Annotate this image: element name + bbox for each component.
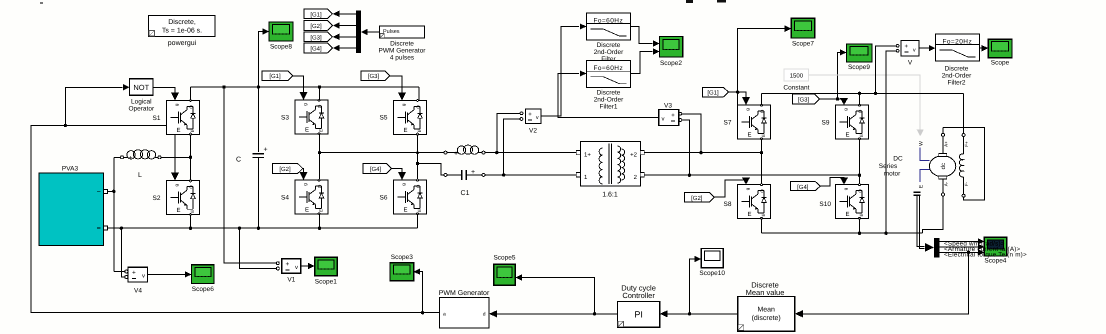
wire: V1 minus tap from negative rail: [239, 228, 276, 268]
bus selector bar: [934, 238, 939, 258]
svg-text:Pulses: Pulses: [383, 29, 400, 35]
from tag [G3] feeding S5: [361, 71, 390, 81]
wire: S3 collector to rail: [319, 87, 321, 100]
from tag [G2] feeding S8: [684, 192, 714, 202]
Discrete PWM Generator 4 pulses block: [380, 26, 425, 38]
svg-text:Discrete: Discrete: [597, 42, 621, 49]
svg-text:dc: dc: [940, 163, 947, 169]
svg-text:S3: S3: [281, 115, 289, 122]
wire: V4 plus from PVA3+ riser: [114, 271, 125, 273]
Discrete 2nd-Order Filter2 (Fo=20Hz): [935, 34, 979, 61]
voltage measurement V4: [125, 267, 148, 282]
voltage measurement V1: [276, 259, 301, 274]
svg-text:Ts = 1e-06 s.: Ts = 1e-06 s.: [162, 28, 202, 35]
wire: V minus tap from - rail: [886, 51, 896, 233]
wire: Scope8 input from DC bus riser: [258, 32, 263, 88]
svg-text:+: +: [132, 270, 136, 277]
svg-text:+: +: [528, 112, 532, 118]
wire: PWM 4 pulses to demux: [368, 31, 380, 33]
goto tag [G3]: [304, 32, 333, 42]
node: Scope5 tap on PI output: [593, 312, 596, 315]
wire: V1 to Scope1: [301, 265, 308, 267]
svg-text:[G1]: [G1]: [310, 11, 322, 18]
PI Duty cycle Controller block: [618, 301, 660, 327]
wire: riser to Scope9: [838, 52, 841, 99]
svg-text:[G4]: [G4]: [310, 46, 322, 53]
goto tag [G2]: [304, 21, 333, 31]
wire: [G4] to S10 gate: [820, 178, 844, 187]
svg-text:S9: S9: [822, 120, 830, 127]
transformer 1.6:1: [576, 142, 644, 187]
wire: Filter1 output to Scope2 input2: [630, 52, 652, 74]
wire: bus selector out2 to Scope4: [939, 246, 978, 248]
wire: V2 minus riser: [504, 119, 520, 175]
wire: demux out4 to [G4]: [339, 47, 356, 49]
svg-text:v: v: [913, 47, 916, 53]
wire: demux out2 to [G2]: [339, 25, 356, 27]
node: NOT branch tap: [64, 124, 67, 127]
faded Constant 1500 block: [784, 69, 809, 81]
voltage measurement V: [896, 40, 919, 56]
svg-text:Controller: Controller: [622, 291, 655, 300]
wire: S4 emitter to negative rail: [319, 214, 321, 228]
svg-text:powergui: powergui: [168, 39, 197, 47]
wire: C1 to transformer 1: [485, 174, 576, 176]
svg-text:[G1]: [G1]: [269, 73, 281, 80]
svg-text:v: v: [536, 115, 539, 121]
wire: S1 collector up to DC bus: [190, 87, 192, 100]
wire: [G2] to S4 gate: [302, 169, 305, 174]
wire: S5 collector from rail: [418, 87, 420, 100]
svg-text:[G3]: [G3]: [798, 97, 810, 104]
PVA3 solar array block: [39, 173, 104, 246]
wire: A- return to bridge2 - rail: [923, 196, 943, 233]
transistor S7: [738, 104, 771, 140]
wire: branch up to NOT input: [65, 87, 122, 125]
wire: S7 collector to bridge2 + rail: [761, 93, 763, 105]
svg-text:[G3]: [G3]: [310, 34, 322, 41]
svg-text:S2: S2: [153, 195, 161, 202]
svg-text:W: W: [919, 141, 925, 146]
node: bridge2 leg A: [760, 151, 763, 154]
transistor S4: [295, 179, 328, 215]
svg-text:d: d: [483, 312, 486, 318]
wire: Scope10 tap: [688, 312, 691, 315]
svg-text:Discrete,: Discrete,: [168, 18, 196, 26]
from tag [G4] feeding S10: [790, 182, 820, 191]
goto tag [G1]: [304, 9, 333, 19]
Scope6: [192, 265, 215, 284]
negative bus rail of PV and H-bridge1: [121, 227, 417, 229]
svg-text:A-: A-: [944, 181, 949, 186]
wire: riser corner to inductor L left port: [114, 156, 120, 158]
svg-text:Scope1: Scope1: [315, 279, 337, 286]
voltage measurement V2: [520, 109, 541, 124]
wire: demux out1 to [G1]: [339, 13, 356, 15]
node: bridge1 leg A output: [318, 151, 321, 154]
Scope2: [659, 37, 682, 57]
wire: inductor to transformer 1+: [485, 152, 576, 154]
svg-text:Fo=20Hz: Fo=20Hz: [942, 39, 972, 46]
svg-text:Scope3: Scope3: [391, 254, 413, 261]
wire: L to boost switch node: [161, 156, 191, 158]
wire: V output to Filter2: [919, 47, 929, 49]
wire: S5 emitter to S6 collector: [417, 134, 419, 180]
wire: leg B output jog down to C1: [418, 164, 445, 175]
inductor L: [121, 150, 162, 162]
wire: V3 minus to 2 line: [682, 120, 690, 175]
svg-text:L: L: [138, 172, 142, 179]
Discrete 2nd-Order Filter (Fo=60Hz): [586, 13, 630, 40]
wire: bus selector out1 to Scope4: [939, 240, 978, 242]
wire: bus selector out3 to Scope4: [939, 251, 978, 253]
svg-text:Scope5: Scope5: [493, 255, 515, 262]
capacitor C: [253, 87, 268, 228]
wire: [G3] to S9 gate and Scope9 tap: [820, 98, 845, 101]
svg-text:[G2]: [G2]: [310, 23, 322, 30]
from tag [G3] feeding S9: [793, 94, 820, 104]
svg-text:v: v: [662, 117, 665, 123]
svg-text:[G2]: [G2]: [279, 166, 291, 173]
wire: S3 emitter to S4 collector: [319, 134, 321, 180]
svg-text:+: +: [263, 147, 267, 154]
wire: V2 output up to Filter: [541, 27, 579, 117]
svg-text:Scope2: Scope2: [660, 60, 682, 67]
svg-text:+: +: [671, 113, 675, 119]
svg-text:Fo=60Hz: Fo=60Hz: [593, 65, 623, 72]
svg-text:2nd-Order: 2nd-Order: [942, 73, 972, 80]
svg-text:+: +: [905, 44, 909, 50]
svg-text:Scope10: Scope10: [699, 270, 725, 277]
wire: DC link + down to V1: [224, 87, 276, 263]
wire: V4 minus tap: [121, 228, 125, 277]
svg-text:S7: S7: [724, 120, 732, 127]
transistor S9: [836, 104, 869, 140]
svg-text:4 pulses: 4 pulses: [390, 55, 415, 62]
svg-text:Mean value: Mean value: [746, 288, 785, 297]
svg-text:Series: Series: [879, 163, 898, 170]
svg-text:[G4]: [G4]: [797, 184, 809, 191]
wire: demux out3 to [G3]: [339, 36, 356, 38]
svg-text:Scope8: Scope8: [270, 44, 292, 51]
wire: Filter output to Scope2 input1: [630, 27, 652, 44]
svg-text:Constant: Constant: [783, 85, 809, 92]
Scope9: [847, 44, 872, 62]
svg-text:V: V: [908, 60, 913, 67]
machine left stubs (blue): [920, 148, 930, 161]
wire: Mean output to PI: [667, 313, 738, 315]
powergui block: [149, 16, 216, 37]
transistor S10: [836, 184, 869, 220]
wire: S1 bottom-left to S2 gate: [174, 135, 176, 174]
node: boost switch node junction: [189, 156, 192, 159]
svg-text:V2: V2: [529, 128, 537, 135]
wire: PI output to PWM Generator d input: [497, 313, 618, 315]
node: capacitor C / Scope8 tap: [257, 85, 260, 88]
svg-text:PWM Generator: PWM Generator: [439, 290, 490, 297]
wire: S2 emitter down to negative rail: [190, 215, 192, 229]
bridge2 + rail: [762, 92, 964, 94]
svg-text:PI: PI: [634, 310, 643, 320]
transistor S2: [167, 180, 200, 216]
Scope10 (white): [701, 249, 723, 268]
svg-text:F-: F-: [964, 181, 969, 186]
transistor S5: [394, 100, 427, 136]
Discrete 2nd-Order Filter1 (Fo=60Hz): [586, 61, 630, 88]
svg-text:Scope: Scope: [991, 60, 1010, 67]
svg-text:S6: S6: [380, 195, 388, 202]
Scope: [988, 39, 1012, 58]
svg-text:C: C: [236, 157, 241, 164]
Discrete Mean value block: [738, 297, 795, 332]
demux bar for pulses: [356, 11, 361, 54]
wire: S9 collector to rail: [859, 93, 861, 105]
svg-text:a: a: [443, 312, 446, 318]
from tag [G4] feeding S6: [363, 164, 392, 174]
svg-text:S8: S8: [724, 201, 732, 208]
wire: S1 emitter to S2 collector: [190, 135, 192, 181]
svg-text:Filter1: Filter1: [599, 104, 617, 111]
svg-text:S10: S10: [819, 201, 831, 208]
svg-text:1+: 1+: [584, 152, 591, 159]
node: crossing of leg A wire: [416, 151, 419, 154]
svg-text:V3: V3: [664, 103, 672, 110]
svg-text:Logical: Logical: [131, 99, 152, 106]
series capacitor C1: [444, 169, 485, 180]
wire: leg A output to series inductor: [320, 152, 445, 154]
from tag [G1] feeding S3: [262, 71, 293, 81]
measurement bus out of machine: [914, 191, 921, 193]
svg-text:1.6:1: 1.6:1: [602, 192, 618, 199]
voltage measurement V3 (mirrored): [659, 110, 682, 126]
transistor S1: [167, 100, 200, 136]
wire: [G1] to S7 gate and Scope7 tap: [729, 92, 747, 97]
series filter inductor: [444, 145, 485, 157]
node: DC link + tap: [222, 85, 225, 88]
svg-text:(discrete): (discrete): [752, 314, 781, 322]
svg-text:1500: 1500: [790, 73, 804, 80]
wire: Filter2 to Scope: [979, 47, 982, 49]
svg-text:V1: V1: [287, 277, 295, 284]
bridge2 - rail: [762, 232, 923, 234]
node: V2 minus tap: [502, 173, 505, 176]
wire: [G4] to S6 gate: [392, 169, 402, 174]
wire: V plus tap from + rail: [876, 46, 897, 94]
Scope5: [494, 264, 516, 285]
field winding coil: [959, 154, 963, 177]
svg-text:v: v: [142, 274, 145, 280]
wire: [G2] to S8 gate: [714, 180, 746, 197]
svg-text:Operator: Operator: [128, 106, 154, 113]
PVA3 - port: [104, 226, 108, 230]
svg-text:Scope6: Scope6: [192, 286, 214, 293]
svg-text:[G1]: [G1]: [707, 90, 719, 97]
node: Scope3 tap on PWM output: [421, 311, 424, 314]
svg-text:Discrete: Discrete: [945, 66, 969, 73]
wire: speed signal down to Discrete Mean value: [803, 252, 969, 313]
wire: S6 emitter to negative rail end: [417, 214, 419, 228]
DC bus top rail of H-bridge1: [191, 86, 420, 88]
wire: [G3] to S5 gate: [390, 76, 402, 94]
wire: tap up and left to Scope5: [522, 278, 595, 314]
Scope4: [984, 237, 1007, 256]
svg-text:NOT: NOT: [133, 83, 149, 92]
wire: tap up and left to Scope3: [420, 272, 423, 313]
wire: S7 emitter to S8 collector: [761, 139, 763, 185]
title remnant marks at top edge: [686, 0, 693, 3]
svg-text:S1: S1: [153, 115, 161, 122]
svg-text:Mean: Mean: [757, 307, 775, 314]
wire: V3 output to Filter1: [558, 74, 659, 118]
wire: transformer 2 to bridge2 leg B node: [644, 174, 859, 176]
svg-text:Scope9: Scope9: [848, 64, 870, 71]
Scope1: [315, 257, 338, 276]
faded wire: Constant to machine w input: [809, 75, 921, 131]
svg-text:A+: A+: [944, 141, 949, 147]
wire: + rail down to field F+: [963, 93, 965, 133]
wire: V3 plus to +2 line: [682, 114, 701, 153]
wire: V4 to Scope6: [148, 273, 185, 275]
svg-text:Discrete: Discrete: [390, 41, 414, 48]
svg-text:Scope7: Scope7: [792, 41, 814, 48]
svg-text:Fo=60Hz: Fo=60Hz: [593, 18, 623, 25]
svg-text:v: v: [295, 265, 298, 271]
svg-text:F+: F+: [964, 141, 969, 147]
NOT Logical Operator block: [130, 79, 154, 96]
wire: PVA3 + to inductor riser and V4: [108, 190, 114, 192]
node: S3 collector tap: [318, 85, 321, 88]
wire: NOT output to S1 gate: [153, 87, 175, 92]
transistor S8: [738, 184, 771, 220]
svg-text:Filter2: Filter2: [947, 80, 965, 87]
goto tag [G4]: [304, 43, 333, 53]
wire: S10 emitter to rail: [859, 219, 861, 234]
Scope3: [390, 263, 414, 281]
PWM Generator block: [439, 298, 489, 329]
machine A- lead: [942, 179, 944, 193]
wire: transformer +2 to bridge2 leg A node: [644, 152, 761, 154]
svg-text:2nd-Order: 2nd-Order: [594, 97, 624, 104]
node: V2 plus tap: [495, 151, 498, 154]
svg-text:+2: +2: [630, 152, 638, 159]
wire: S9 emitter to S10 collector: [859, 139, 861, 185]
svg-text:S4: S4: [281, 195, 289, 202]
wire: PWM feedback left border to S1 gate input: [31, 126, 439, 313]
svg-text:DC: DC: [893, 156, 903, 163]
svg-text:[G3]: [G3]: [368, 73, 380, 80]
node: bridge1 leg B output: [416, 162, 419, 165]
svg-text:PWM Generator: PWM Generator: [379, 48, 427, 55]
wire: PVA3 - to negative rail start: [108, 227, 122, 229]
svg-text:Discrete: Discrete: [597, 90, 621, 97]
transistor S6: [394, 179, 427, 215]
PVA3 + port: [104, 189, 108, 193]
DC machine armature: [929, 153, 955, 179]
DC machine armature riser A+: [942, 128, 944, 134]
from tag [G1] feeding S7: [703, 87, 729, 96]
from tag [G2] feeding S4: [273, 164, 303, 174]
node: bridge2 leg B: [858, 174, 861, 177]
svg-text:V4: V4: [134, 288, 142, 295]
Scope7: [791, 18, 815, 38]
wire: V2 plus riser: [497, 113, 520, 152]
transistor S3: [295, 99, 328, 135]
svg-text:C1: C1: [461, 190, 470, 197]
svg-text:2nd-Order: 2nd-Order: [594, 49, 624, 56]
svg-text:[G2]: [G2]: [691, 195, 703, 202]
wire: S8 emitter to bridge2 - rail: [761, 219, 763, 234]
wire: [G1] to S3 gate: [293, 76, 304, 93]
machine top loop wire: [943, 128, 985, 201]
svg-text:S5: S5: [380, 115, 388, 122]
svg-text:[G4]: [G4]: [370, 166, 382, 173]
Scope8: [269, 22, 293, 41]
svg-text:PVA3: PVA3: [62, 166, 79, 173]
svg-text:+: +: [286, 261, 290, 268]
svg-text:<Electrical torque Te (n m)>: <Electrical torque Te (n m)>: [944, 252, 1027, 259]
wire: riser to Scope7: [738, 29, 785, 93]
